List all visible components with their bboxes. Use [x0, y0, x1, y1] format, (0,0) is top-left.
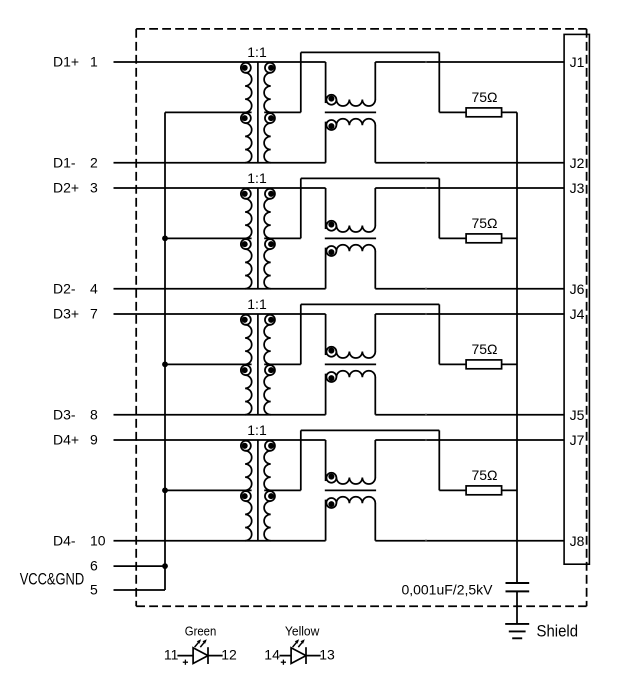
svg-text:11: 11 [164, 646, 179, 662]
svg-text:12: 12 [221, 646, 237, 662]
svg-text:J6: J6 [570, 281, 585, 297]
svg-text:3: 3 [90, 180, 98, 196]
svg-text:1:1: 1:1 [247, 170, 267, 186]
svg-text:8: 8 [90, 406, 98, 422]
svg-text:10: 10 [90, 532, 106, 548]
svg-text:1:1: 1:1 [247, 44, 267, 60]
svg-text:J5: J5 [570, 407, 585, 423]
svg-text:J8: J8 [570, 533, 585, 549]
svg-text:D2-: D2- [53, 280, 76, 296]
svg-text:0,001uF/2,5kV: 0,001uF/2,5kV [401, 581, 493, 597]
svg-text:J7: J7 [570, 432, 585, 448]
svg-text:4: 4 [90, 280, 98, 296]
svg-text:J1: J1 [570, 54, 585, 70]
svg-text:D2+: D2+ [53, 180, 79, 196]
svg-text:VCC&GND: VCC&GND [20, 571, 85, 589]
svg-text:1:1: 1:1 [247, 296, 267, 312]
svg-text:D4+: D4+ [53, 432, 79, 448]
svg-text:D1+: D1+ [53, 54, 79, 70]
svg-text:J4: J4 [570, 306, 585, 322]
svg-text:J3: J3 [570, 180, 585, 196]
svg-text:D3+: D3+ [53, 306, 79, 322]
svg-text:75Ω: 75Ω [471, 467, 497, 483]
svg-text:75Ω: 75Ω [471, 341, 497, 357]
svg-text:5: 5 [90, 582, 98, 598]
svg-text:13: 13 [319, 646, 335, 662]
svg-text:7: 7 [90, 306, 98, 322]
svg-text:D1-: D1- [53, 154, 76, 170]
svg-text:D4-: D4- [53, 532, 76, 548]
svg-text:D3-: D3- [53, 406, 76, 422]
svg-text:75Ω: 75Ω [471, 89, 497, 105]
svg-text:2: 2 [90, 154, 98, 170]
svg-text:J2: J2 [570, 155, 585, 171]
svg-text:Green: Green [185, 624, 217, 639]
svg-text:1: 1 [90, 54, 98, 70]
svg-text:9: 9 [90, 432, 98, 448]
svg-text:6: 6 [90, 558, 98, 574]
svg-text:14: 14 [264, 646, 280, 662]
svg-text:75Ω: 75Ω [471, 215, 497, 231]
svg-text:1:1: 1:1 [247, 422, 267, 438]
svg-text:Yellow: Yellow [285, 624, 320, 639]
svg-text:Shield: Shield [537, 621, 579, 640]
